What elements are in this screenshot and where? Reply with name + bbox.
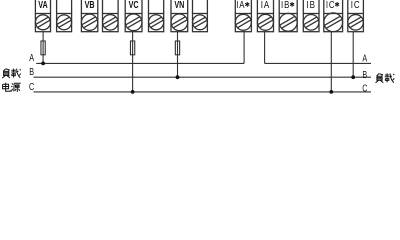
svg-text:IA: IA (261, 0, 270, 10)
junction dot C/VC (131, 90, 135, 94)
svg-text:IB: IB (281, 0, 290, 10)
svg-text:IC: IC (351, 0, 361, 10)
wire: phase line B (34, 76, 372, 78)
fuse FU1 on VA wire (41, 41, 45, 55)
junction dot A/VA (41, 62, 45, 66)
fuse FU3 on VN wire (175, 41, 179, 55)
svg-text:VN: VN (174, 0, 184, 10)
terminal box VA (35, 0, 50, 32)
wire VC terminal down to line C (132, 32, 134, 92)
label 负载 (load) left (2, 69, 21, 79)
terminal box IA* (235, 0, 251, 32)
wire: phase line A right segment (265, 62, 371, 64)
terminal box (unlabeled) (57, 0, 72, 32)
svg-text:C: C (29, 81, 34, 92)
label 负载 (load) right (376, 73, 395, 83)
svg-text:IB: IB (306, 0, 315, 10)
wire IC* down to line C (330, 32, 332, 92)
svg-text:VA: VA (38, 0, 48, 10)
fuse FU2 on VC wire (130, 41, 134, 55)
wire VN terminal down to line B (177, 32, 179, 78)
svg-text:B: B (29, 66, 34, 77)
wire IC down to line B (352, 32, 354, 78)
wire: phase line C (34, 91, 372, 93)
terminal box VB (81, 0, 97, 32)
wire riser IA* to line A left end (243, 32, 245, 64)
wire: phase line A left segment (36, 62, 244, 64)
junction dot C/IC* (329, 90, 333, 94)
junction dot B/IC (351, 75, 355, 79)
terminal box (unlabeled) (103, 0, 119, 32)
svg-text:C: C (362, 83, 367, 94)
wire VA terminal down to line A (42, 32, 44, 64)
svg-text:VC: VC (129, 0, 140, 10)
svg-text:A: A (362, 52, 367, 63)
svg-text:IA: IA (236, 0, 245, 10)
terminal box IC* (324, 0, 343, 32)
svg-text:A: A (29, 52, 34, 63)
svg-text:B: B (362, 69, 367, 80)
terminal box VN (171, 0, 188, 32)
wire riser IA to line A right start (264, 32, 266, 64)
wiring diagram: energy meter terminal strip (0, 0, 400, 106)
terminal box VC (125, 0, 142, 32)
junction dot B/VN (176, 75, 180, 79)
terminal box IB (303, 0, 319, 32)
label 电源 (power) left (3, 83, 21, 92)
terminal box (unlabeled) (149, 0, 164, 32)
svg-text:VB: VB (85, 0, 95, 10)
terminal box (unlabeled) (193, 0, 208, 32)
terminal box IB* (279, 0, 297, 32)
svg-text:IC: IC (326, 0, 336, 10)
terminal box IA (257, 0, 273, 32)
terminal box IC (348, 0, 364, 32)
